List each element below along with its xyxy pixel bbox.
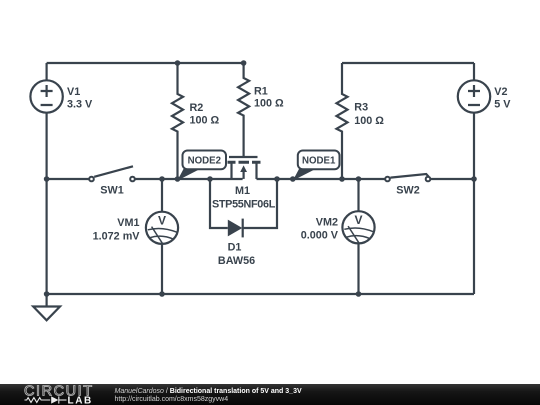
- wire left vertical to ground corner: [45, 179, 47, 294]
- voltmeter VM1: [146, 212, 178, 244]
- svg-text:100 Ω: 100 Ω: [354, 115, 384, 127]
- resistor R3: [337, 63, 348, 179]
- svg-text:1.072 mV: 1.072 mV: [93, 231, 141, 243]
- svg-text:D1: D1: [228, 242, 242, 254]
- diode D1 cathode bar: [242, 219, 244, 238]
- svg-text:ManuelCardoso / Bidirectional: ManuelCardoso / Bidirectional translatio…: [115, 388, 302, 395]
- resistor R1: [238, 63, 249, 157]
- svg-text:V: V: [158, 213, 166, 227]
- svg-text:SW1: SW1: [100, 185, 123, 197]
- svg-text:LAB: LAB: [68, 395, 93, 405]
- junction dot NODE1: [290, 176, 296, 182]
- svg-text:R3: R3: [354, 102, 368, 114]
- svg-text:STP55NF06L: STP55NF06L: [212, 199, 276, 211]
- wire top-left net V1 to R1: [47, 62, 244, 64]
- transistor M1 gate bar: [229, 156, 258, 158]
- transistor M1 body arrow head: [240, 165, 247, 172]
- junction dot R1 top: [241, 60, 247, 66]
- wire bottom rail: [47, 293, 474, 295]
- ground stub: [45, 294, 47, 307]
- wire VM1 branch upper: [161, 179, 163, 212]
- logo diode triangle: [51, 396, 58, 403]
- junction dot VM2 top: [356, 176, 362, 182]
- logo squiggle resistor and diode: [25, 396, 67, 403]
- switch SW1: [89, 177, 94, 182]
- voltmeter VM2: [342, 211, 374, 243]
- svg-text:V1: V1: [67, 86, 80, 98]
- svg-text:NODE1: NODE1: [302, 155, 336, 166]
- wire V1 bottom to main wire: [45, 113, 47, 179]
- junction dot V2 wire: [471, 176, 477, 182]
- wire VM2 branch upper: [357, 179, 359, 211]
- wire V2 bottom: [473, 113, 475, 179]
- voltage source V2: [458, 80, 490, 112]
- wire VM1 bottom: [161, 244, 163, 294]
- svg-text:R1: R1: [254, 86, 268, 98]
- svg-text:V: V: [354, 213, 362, 227]
- svg-text:R2: R2: [190, 102, 204, 114]
- svg-text:SW2: SW2: [396, 185, 419, 197]
- svg-text:VM1: VM1: [117, 217, 139, 229]
- junction dot R2 top: [175, 60, 181, 66]
- svg-text:BAW56: BAW56: [218, 255, 255, 267]
- node NODE2 flag tail: [177, 169, 200, 181]
- wire main left to SW1: [47, 178, 90, 180]
- junction dot VM1 bottom: [159, 291, 165, 297]
- wire SW1 to mosfet source: [135, 178, 243, 180]
- junction dot VM1 top: [159, 176, 165, 182]
- junction dot D1 right: [274, 176, 280, 182]
- wire mosfet drain to SW2: [257, 178, 386, 180]
- wire V2 top stub: [473, 63, 475, 81]
- svg-text:V2: V2: [494, 86, 507, 98]
- svg-text:VM2: VM2: [316, 217, 338, 229]
- resistor R2: [172, 63, 183, 179]
- wire SW2 to V2: [430, 178, 474, 180]
- junction dot V1 bottom: [44, 176, 50, 182]
- wire V2 right vertical down: [473, 179, 475, 294]
- junction dot ground corner: [44, 291, 50, 297]
- node NODE1 flag box: [298, 151, 340, 170]
- junction dot VM2 bottom: [356, 291, 362, 297]
- transistor M1 body arrow: [243, 171, 245, 179]
- diode D1 triangle: [228, 220, 243, 237]
- svg-text:5 V: 5 V: [494, 99, 511, 111]
- junction dot NODE2: [175, 176, 181, 182]
- svg-text:3.3 V: 3.3 V: [67, 99, 93, 111]
- wire VM2 bottom: [357, 243, 359, 294]
- node NODE1 flag tail: [293, 169, 316, 181]
- node NODE2 flag box: [183, 151, 227, 170]
- diode D1 left lead: [210, 179, 228, 228]
- svg-text:http://circuitlab.com/c8xms58z: http://circuitlab.com/c8xms58zgyvw4: [115, 396, 229, 403]
- svg-text:100 Ω: 100 Ω: [190, 115, 220, 127]
- diode D1 right lead: [243, 179, 277, 228]
- junction dot R3 bottom: [339, 176, 345, 182]
- wire V1 top stub: [45, 63, 47, 81]
- svg-text:0.000 V: 0.000 V: [301, 230, 339, 242]
- junction dot D1 left: [207, 176, 213, 182]
- svg-text:M1: M1: [235, 185, 250, 197]
- transistor M1 drain stub: [230, 164, 232, 180]
- voltage source V1: [30, 80, 62, 112]
- svg-text:NODE2: NODE2: [188, 155, 221, 166]
- ground symbol: [33, 307, 60, 321]
- transistor M1 source stub: [255, 164, 257, 180]
- svg-text:100 Ω: 100 Ω: [254, 98, 284, 110]
- transistor M1 channel bars: [228, 161, 261, 164]
- switch SW2: [385, 177, 390, 182]
- wire top-right net R3 to V2: [342, 62, 474, 64]
